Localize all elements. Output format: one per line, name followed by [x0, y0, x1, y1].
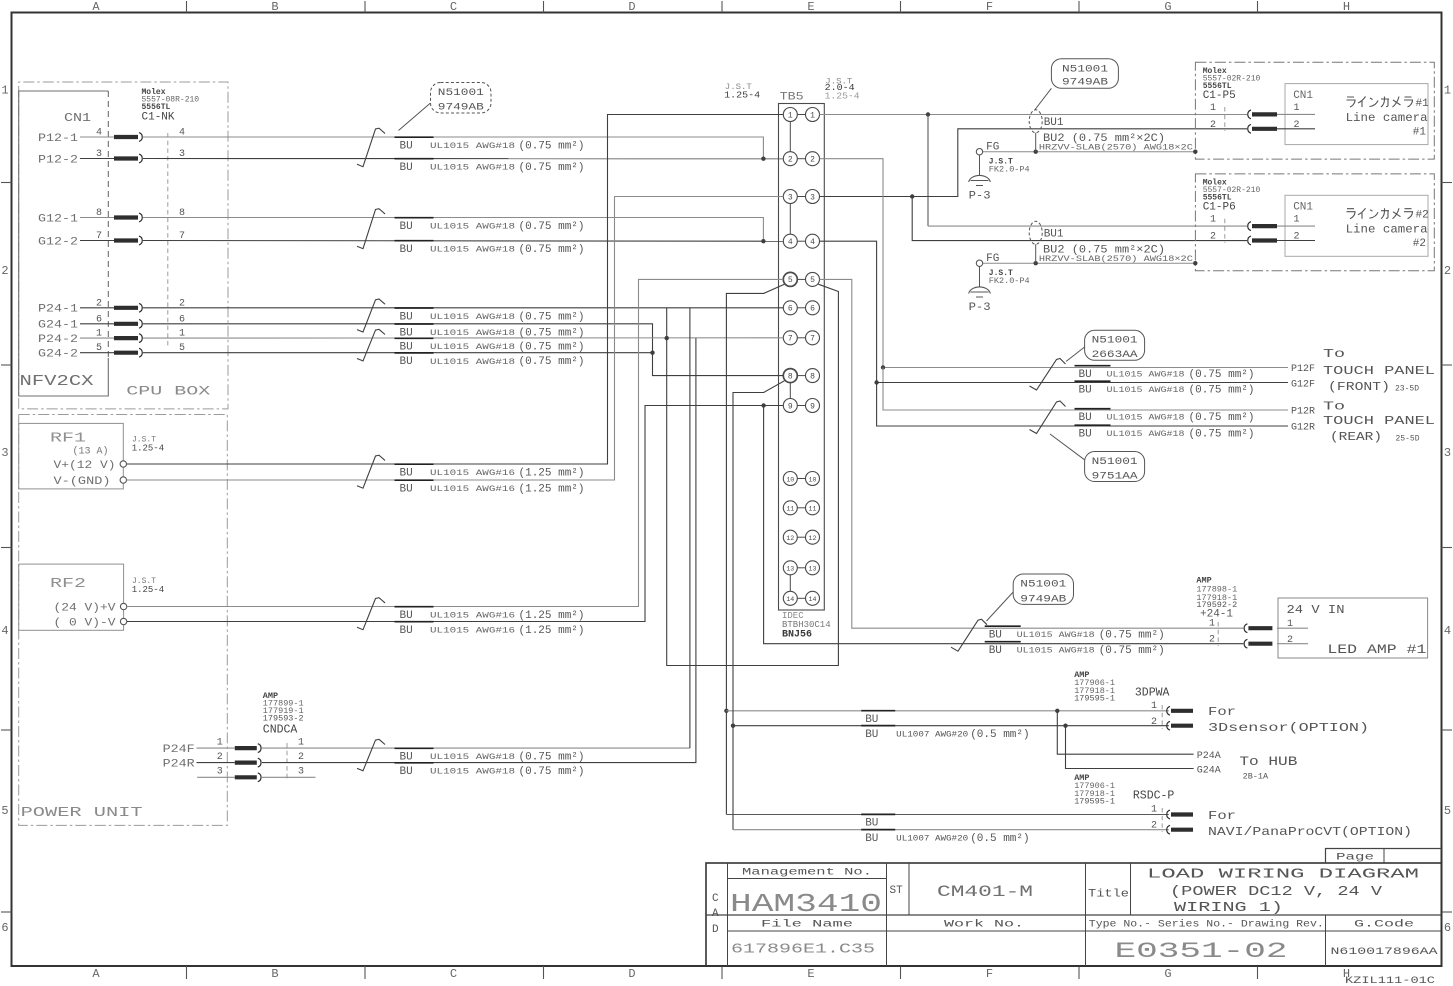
rectifier RF2 box: [19, 564, 124, 630]
callout N51001 9751AA (rear panel): [1085, 452, 1145, 482]
svg-text:RF1: RF1: [50, 431, 86, 447]
svg-text:8: 8: [810, 372, 815, 381]
svg-text:(0.75 mm²): (0.75 mm²): [519, 752, 585, 764]
svg-text:1: 1: [1444, 84, 1451, 98]
svg-text:A: A: [92, 0, 100, 14]
wire camera 2 pin2 feed: [912, 197, 1247, 241]
svg-text:(0.75 mm²): (0.75 mm²): [519, 356, 585, 368]
svg-text:FK2.0-P4: FK2.0-P4: [989, 165, 1030, 175]
svg-text:FG: FG: [986, 253, 999, 265]
svg-text:UL1015 AWG#16: UL1015 AWG#16: [430, 627, 515, 636]
TB5 terminal 1 right circle: [806, 108, 820, 122]
svg-text:4: 4: [1444, 624, 1451, 638]
frame column letters top: [92, 0, 1350, 14]
svg-text:TOUCH PANEL: TOUCH PANEL: [1323, 364, 1435, 378]
svg-text:C: C: [712, 893, 719, 905]
CN1 pin G12-1 contact: [114, 213, 142, 222]
svg-text:9: 9: [810, 402, 815, 411]
svg-text:5: 5: [810, 276, 815, 285]
junction G24-1/G24-2: [650, 351, 654, 355]
wire G24-1 to TB5-8: [143, 324, 783, 376]
cable break P24-2/G24-2 pair: [357, 329, 385, 361]
svg-text:12: 12: [809, 535, 817, 542]
svg-text:(1.25 mm²): (1.25 mm²): [519, 484, 585, 496]
CN1 pin G24-2 lead wire: [80, 352, 114, 354]
3DPWA dashed divider: [1161, 705, 1163, 729]
svg-text:C1-NK: C1-NK: [142, 112, 175, 124]
svg-text:6: 6: [1444, 921, 1451, 935]
cable break touch panel rear pair: [1030, 401, 1066, 434]
title block CAD cell divider: [727, 863, 729, 966]
RF2 terminal circle +V: [120, 603, 126, 609]
svg-text:POWER UNIT: POWER UNIT: [21, 805, 143, 821]
frame row numbers right: [1444, 84, 1451, 936]
svg-text:1: 1: [1151, 805, 1157, 816]
wire P24-2 to TB5-7: [143, 337, 783, 339]
frame row ticks right: [1442, 183, 1453, 913]
svg-text:179595-1: 179595-1: [1074, 694, 1115, 704]
svg-text:3: 3: [217, 767, 223, 778]
title block header underline: [728, 930, 1442, 932]
junction G12-1/G12-2: [761, 239, 765, 243]
protective earth symbol P-3 2: [969, 287, 991, 294]
wire label BU UL1015 AWG#18: [395, 762, 434, 764]
TB5 internal link 3-4: [789, 204, 791, 235]
svg-text:#1: #1: [1413, 127, 1427, 139]
TB5 terminal 3 right circle: [806, 190, 820, 204]
svg-text:2: 2: [1209, 635, 1215, 646]
svg-text:1: 1: [1294, 215, 1300, 226]
TB5 terminal 3 crossbar: [797, 196, 805, 198]
svg-text:C1-P6: C1-P6: [1203, 202, 1236, 214]
wire TB5-3 right to Line camera pin2 riser: [820, 129, 1248, 197]
svg-text:179595-1: 179595-1: [1074, 797, 1115, 807]
svg-text:P24R: P24R: [163, 758, 195, 770]
svg-text:D: D: [628, 967, 635, 981]
TB5 terminal 9 left circle: [783, 399, 797, 413]
svg-text:2: 2: [298, 752, 304, 763]
svg-text:8: 8: [788, 372, 793, 381]
svg-text:N51001: N51001: [438, 88, 484, 99]
wire RSDC-P pin2: [733, 829, 1169, 831]
svg-text:WIRING 1): WIRING 1): [1174, 901, 1283, 916]
svg-text:5: 5: [96, 343, 102, 354]
camera 2 connector dashed divider: [1224, 219, 1226, 243]
svg-text:1.25-4: 1.25-4: [825, 92, 860, 102]
svg-text:E: E: [807, 967, 814, 981]
junction P24-2 jumper: [665, 336, 669, 340]
svg-text:BU: BU: [865, 714, 878, 726]
svg-text:UL1015 AWG#18: UL1015 AWG#18: [1107, 414, 1185, 423]
svg-text:Line camera: Line camera: [1346, 223, 1428, 237]
svg-text:P24-1: P24-1: [38, 304, 78, 316]
svg-text:UL1015 AWG#16: UL1015 AWG#16: [430, 485, 515, 494]
svg-text:ST: ST: [890, 885, 904, 897]
TB5 terminal 13 left circle: [783, 561, 797, 575]
svg-text:6: 6: [810, 305, 815, 314]
svg-text:1: 1: [96, 329, 102, 340]
svg-text:P12-2: P12-2: [38, 154, 78, 166]
svg-text:6: 6: [1, 921, 8, 935]
TB5 terminal 14 crossbar: [797, 597, 805, 599]
frame column ticks top: [187, 1, 1258, 13]
svg-text:5: 5: [1, 804, 8, 818]
svg-text:#1: #1: [1416, 98, 1430, 110]
frame column letters bottom: [92, 967, 1350, 981]
callout leader (rear panel): [1050, 434, 1085, 460]
svg-text:BU: BU: [400, 244, 413, 256]
junction shield at camera box 2: [1193, 261, 1197, 265]
cable break P24-1/G24-1 pair: [357, 299, 385, 332]
CNDCA pin 2 lead wire: [197, 762, 235, 764]
wire CNDCA P24R riser to TB5-7 net: [262, 338, 696, 762]
wire label BU UL1015 AWG#16: [395, 463, 434, 465]
svg-text:FG: FG: [986, 142, 999, 154]
svg-text:B: B: [271, 0, 278, 14]
svg-text:BU: BU: [400, 356, 413, 368]
callout N51001 9749AB (CPU harness): [431, 83, 492, 114]
TB5 terminal 2 right circle: [806, 152, 820, 166]
svg-text:2: 2: [810, 156, 815, 165]
svg-text:V+(12 V): V+(12 V): [54, 460, 116, 472]
svg-text:N51001: N51001: [1062, 65, 1108, 76]
svg-text:UL1015 AWG#18: UL1015 AWG#18: [430, 358, 515, 367]
wire label BU 3D pin1: [861, 710, 895, 712]
svg-text:BU: BU: [400, 342, 413, 354]
wire TB5-5 right to LED AMP pin1: [820, 279, 1244, 628]
svg-text:P24F: P24F: [163, 744, 195, 756]
callout leader (LED cable): [987, 592, 1014, 621]
cable break P12 pair: [357, 128, 385, 167]
cable BU1 drop 1: [1035, 133, 1037, 152]
svg-text:G24-1: G24-1: [38, 320, 78, 332]
svg-text:11: 11: [786, 506, 794, 513]
svg-text:3Dsensor(OPTION): 3Dsensor(OPTION): [1208, 721, 1369, 735]
callout N51001 9749AB (camera cable): [1051, 59, 1118, 89]
Line camera 2 dash-dot enclosure: [1195, 174, 1434, 271]
junction G12F/G12R split: [874, 380, 878, 384]
svg-text:P-3: P-3: [969, 191, 991, 203]
TB5 terminal 8 left circle: [783, 369, 797, 383]
TB5 terminal 1 crossbar: [797, 114, 805, 116]
svg-text:BU: BU: [400, 141, 413, 153]
svg-text:G: G: [1164, 0, 1171, 14]
svg-text:10: 10: [809, 476, 817, 483]
svg-text:G12-2: G12-2: [38, 236, 78, 248]
cable BU1 drop 2: [1035, 244, 1037, 263]
FG down lead 1: [979, 155, 981, 175]
Line camera 1 dash-dot enclosure: [1195, 62, 1434, 159]
wire label BU UL1015 AWG#18: [395, 337, 434, 339]
cable break touch panel front pair: [1030, 359, 1066, 391]
svg-text:UL1015 AWG#18: UL1015 AWG#18: [1017, 631, 1095, 640]
junction 0V riser to 3Dsensor wire: [731, 724, 735, 728]
TB5 internal link 13-14: [789, 575, 791, 592]
RSDC-P pin1 contact: [1167, 810, 1193, 819]
svg-text:1: 1: [1210, 215, 1216, 226]
svg-text:12: 12: [786, 535, 794, 542]
svg-text:7: 7: [96, 231, 102, 242]
TB5 terminal 10 crossbar: [797, 478, 805, 480]
svg-text:Work No.: Work No.: [944, 919, 1024, 931]
wire RF1 V- to TB5-3: [127, 197, 784, 481]
camera 1 pin stubs: [1277, 113, 1315, 115]
svg-text:RF2: RF2: [50, 576, 86, 592]
svg-text:1: 1: [1294, 103, 1300, 114]
svg-text:C: C: [450, 0, 457, 14]
svg-text:3: 3: [1444, 446, 1451, 460]
svg-text:24 V IN: 24 V IN: [1287, 604, 1345, 617]
svg-text:G12-1: G12-1: [38, 213, 78, 225]
TB5 terminal 7 right circle: [806, 331, 820, 345]
TB5 terminal 9 crossbar: [797, 405, 805, 407]
svg-text:F: F: [986, 0, 993, 14]
CN1 pin G12-1 lead wire: [80, 217, 114, 219]
svg-text:CN1: CN1: [1293, 90, 1313, 102]
TB5 terminal 3 left circle: [783, 190, 797, 204]
TB5 internal link 1-2: [789, 122, 791, 152]
TB5 terminal 2 left circle: [783, 152, 797, 166]
svg-text:N51001: N51001: [1020, 579, 1066, 590]
title block Title cell divider: [1085, 863, 1087, 966]
TB5 terminal 1 left circle: [783, 108, 797, 122]
svg-text:BU: BU: [989, 645, 1002, 657]
svg-text:D: D: [628, 0, 635, 14]
junction P24A tap: [1055, 709, 1059, 713]
NFV2CX unit box: [19, 91, 109, 396]
wire label BU UL1015 AWG#16: [395, 621, 434, 623]
CN1 pin P24-1 contact: [114, 303, 142, 312]
svg-text:(1.25 mm²): (1.25 mm²): [519, 625, 585, 637]
svg-text:(0.5 mm²): (0.5 mm²): [970, 833, 1029, 845]
cable break CNDCA pair: [357, 739, 385, 771]
svg-text:UL1015 AWG#18: UL1015 AWG#18: [1107, 371, 1185, 380]
camera 2 cable shield line: [983, 262, 1196, 264]
svg-text:(0.75 mm²): (0.75 mm²): [519, 342, 585, 354]
svg-text:(0.75 mm²): (0.75 mm²): [1189, 369, 1255, 381]
svg-text:UL1015 AWG#18: UL1015 AWG#18: [430, 246, 515, 255]
TB5 terminal 14 left circle: [783, 591, 797, 605]
TB5 terminal 2 crossbar: [797, 158, 805, 160]
wire CNDCA P24F riser to TB5-6 net: [262, 747, 690, 749]
RF2 terminal circle -V: [120, 618, 126, 624]
svg-text:#2: #2: [1416, 210, 1429, 222]
svg-text:N51001: N51001: [1092, 457, 1138, 468]
wire label BU front G12F: [1075, 380, 1111, 382]
TB5 terminal 6 right circle: [806, 301, 820, 315]
svg-text:2: 2: [1287, 635, 1293, 646]
wire G24-2 joining G24-1: [143, 352, 653, 354]
svg-text:5: 5: [788, 276, 793, 285]
svg-text:G: G: [1164, 967, 1171, 981]
svg-text:F: F: [986, 967, 993, 981]
svg-text:1: 1: [1, 84, 8, 98]
FG terminal circle 1: [976, 149, 982, 155]
svg-text:(0.75 mm²): (0.75 mm²): [1189, 412, 1255, 424]
svg-text:BU: BU: [865, 729, 878, 741]
TB5 terminal 4 left circle: [783, 234, 797, 248]
svg-text:(POWER DC12 V, 24 V: (POWER DC12 V, 24 V: [1170, 885, 1383, 900]
RF1 terminal circle V+: [120, 461, 126, 467]
RSDC-P dashed divider: [1161, 808, 1163, 832]
TB5 terminal 14 right circle: [806, 591, 820, 605]
svg-text:TOUCH PANEL: TOUCH PANEL: [1323, 414, 1435, 428]
svg-text:1: 1: [298, 738, 304, 749]
svg-text:9749AB: 9749AB: [1020, 594, 1066, 605]
wire label BU rear G12R: [1075, 424, 1111, 426]
svg-text:2: 2: [217, 752, 223, 763]
wire P12-1 to TB5-2: [143, 137, 763, 159]
cable BU1 oval 1: [1029, 110, 1042, 133]
junction shield at camera box 1: [1193, 150, 1197, 154]
CNDCA dashed divider: [286, 743, 288, 780]
svg-text:1: 1: [1151, 701, 1157, 712]
svg-text:BU: BU: [1079, 412, 1092, 424]
CNDCA pin 3 lead wire stub left: [197, 776, 235, 778]
svg-text:14: 14: [809, 596, 817, 603]
svg-text:D: D: [712, 924, 719, 936]
TB5 terminal 12 crossbar: [797, 536, 805, 538]
wire label BU 3D pin2 UL1007: [861, 725, 895, 727]
junction 24V riser to 3Dsensor wire: [724, 709, 728, 713]
svg-text:9: 9: [788, 402, 793, 411]
camera 2 pin1 contact: [1248, 222, 1277, 231]
TB5 terminal 7 left circle: [783, 331, 797, 345]
CN1 pin P12-1 lead wire: [80, 136, 114, 138]
title block title text divider: [1130, 863, 1132, 915]
wire label BU front P12F: [1075, 365, 1111, 367]
svg-text:G24A: G24A: [1197, 766, 1221, 777]
wire label BU UL1015 AWG#18: [395, 158, 434, 160]
TB5 terminal 6 left circle: [783, 301, 797, 315]
svg-text:25-5D: 25-5D: [1396, 435, 1420, 444]
svg-text:HRZVV-SLAB(2570) AWG18×2C: HRZVV-SLAB(2570) AWG18×2C: [1039, 254, 1193, 264]
svg-text:23-5D: 23-5D: [1395, 385, 1419, 394]
camera 2 pin stubs: [1277, 225, 1315, 227]
CN1 pin G24-1 contact: [114, 319, 142, 328]
TB5 terminal 9 right circle: [806, 399, 820, 413]
svg-text:Title: Title: [1088, 889, 1129, 901]
wire label BU UL1015 AWG#18: [395, 307, 434, 309]
svg-text:G.Code: G.Code: [1354, 919, 1414, 931]
TB5 internal link 8-9: [789, 383, 791, 399]
callout leader (CPU harness): [399, 103, 431, 131]
svg-text:7: 7: [810, 335, 815, 344]
CN1 pin P12-1 contact: [114, 133, 142, 142]
TB5 terminal 12 left circle: [783, 530, 797, 544]
svg-text:1.25-4: 1.25-4: [132, 444, 164, 454]
frame row ticks left: [1, 183, 12, 913]
svg-text:BU: BU: [400, 221, 413, 233]
svg-text:H: H: [1343, 0, 1350, 14]
camera 2 pin2 contact: [1248, 236, 1277, 245]
svg-text:2: 2: [788, 156, 793, 165]
svg-text:BU: BU: [400, 610, 413, 622]
svg-text:6: 6: [788, 305, 793, 314]
svg-text:(0.75 mm²): (0.75 mm²): [1189, 429, 1255, 441]
wire label BU UL1015 AWG#16: [395, 606, 434, 608]
svg-text:3: 3: [788, 193, 793, 202]
CNDCA pin 3 contact: [235, 773, 261, 782]
svg-text:3DPWA: 3DPWA: [1135, 687, 1170, 700]
svg-text:6: 6: [96, 314, 102, 325]
svg-text:BU: BU: [1079, 429, 1092, 441]
svg-text:N610017896AA: N610017896AA: [1331, 946, 1439, 958]
svg-text:LED AMP #1: LED AMP #1: [1327, 642, 1426, 657]
camera 1 connector dashed divider: [1224, 107, 1226, 131]
svg-text:2B-1A: 2B-1A: [1243, 772, 1269, 782]
cable break G12 pair: [357, 209, 385, 249]
CNDCA pin 2 contact: [235, 758, 261, 767]
title block management/ST divider: [886, 863, 888, 966]
svg-text:UL1015 AWG#18: UL1015 AWG#18: [430, 142, 515, 151]
TB5 terminal 6 crossbar: [797, 307, 805, 309]
rectifier RF1 box: [19, 423, 124, 489]
svg-text:(24 V)+V: (24 V)+V: [54, 603, 116, 615]
svg-text:UL1015 AWG#18: UL1015 AWG#18: [430, 753, 515, 762]
svg-text:#2: #2: [1413, 238, 1426, 250]
svg-text:P24-2: P24-2: [38, 334, 78, 346]
svg-text:2: 2: [1444, 264, 1451, 278]
wire P12-2 to TB5-2: [143, 158, 783, 160]
svg-text:E: E: [807, 0, 814, 14]
TB5 terminal 11 crossbar: [797, 507, 805, 509]
svg-text:1.25-4: 1.25-4: [724, 90, 760, 101]
svg-text:KZIL111-01C: KZIL111-01C: [1345, 976, 1435, 986]
TB5 terminal 5 right circle: [806, 272, 820, 286]
svg-text:3: 3: [298, 767, 304, 778]
svg-text:UL1015 AWG#18: UL1015 AWG#18: [430, 343, 515, 352]
svg-text:2: 2: [1, 264, 8, 278]
wire 24V jumper TB5-5 right to TB5-6/7 net: [667, 284, 839, 665]
TB5 terminal 12 right circle: [806, 530, 820, 544]
svg-text:BU: BU: [989, 630, 1002, 642]
svg-text:1: 1: [1210, 103, 1216, 114]
TB5 terminal 10 right circle: [806, 472, 820, 486]
TB5 terminal 11 left circle: [783, 501, 797, 515]
callout leader (front panel): [1066, 347, 1085, 362]
camera 1 cable shield line: [983, 151, 1196, 153]
TB5 terminal 5 crossbar: [797, 278, 805, 280]
RSDC-P pin2 contact: [1167, 825, 1193, 834]
svg-text:2663AA: 2663AA: [1092, 350, 1138, 361]
svg-text:(0.5 mm²): (0.5 mm²): [970, 729, 1029, 741]
svg-text:BU: BU: [400, 162, 413, 174]
svg-text:NAVI/PanaProCVT(OPTION): NAVI/PanaProCVT(OPTION): [1208, 825, 1412, 839]
camera 1 device box: [1285, 84, 1428, 145]
svg-text:P-3: P-3: [969, 302, 991, 314]
camera 1 pin1 contact: [1248, 110, 1277, 119]
title block G.Code divider: [1325, 915, 1327, 966]
svg-text:(0.75 mm²): (0.75 mm²): [1099, 645, 1165, 657]
svg-text:P12-1: P12-1: [38, 133, 78, 145]
svg-text:2: 2: [1210, 120, 1216, 131]
connector +24-1 dashed divider: [1217, 622, 1219, 646]
wire TB5-9 branch to LED AMP pin2: [764, 406, 1244, 644]
title block outline: [706, 863, 1442, 966]
svg-text:1: 1: [810, 111, 815, 120]
svg-text:File Name: File Name: [761, 919, 853, 931]
wire label BU UL1015 AWG#16: [395, 479, 434, 481]
svg-text:3: 3: [1, 446, 8, 460]
svg-text:4: 4: [788, 238, 793, 247]
TB5 terminal 4 crossbar: [797, 240, 805, 242]
callout N51001 2663AA (front panel): [1085, 330, 1145, 360]
Page box: [1326, 849, 1442, 864]
wire RSDC-P pin1: [726, 814, 1168, 816]
wire RF2 -V to TB5-9: [127, 406, 783, 622]
wire label BU LED pin2: [985, 641, 1021, 643]
